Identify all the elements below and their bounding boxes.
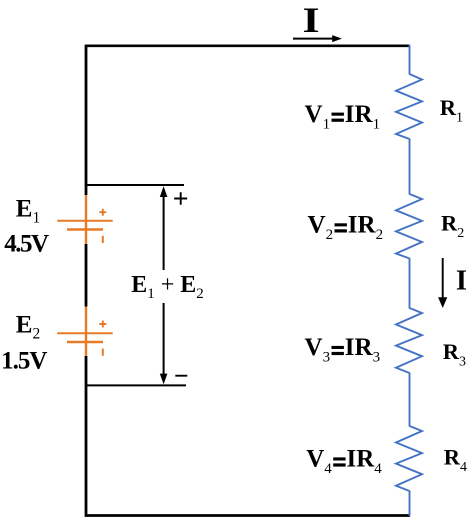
svg-text:I: I [303, 0, 320, 40]
current arrow mid (down) [438, 258, 447, 308]
svg-text:R4: R4 [444, 444, 467, 475]
svg-text:IR1: IR1 [345, 101, 380, 132]
wire left (segment below battery E2) [85, 356, 88, 517]
svg-text:4.5V: 4.5V [4, 231, 49, 258]
wire right between R3 and R4 [409, 373, 411, 427]
label plus (top of bracket) [174, 192, 187, 204]
wire bottom [86, 514, 410, 517]
svg-text:R3: R3 [443, 339, 466, 370]
svg-text:E1: E1 [16, 196, 40, 227]
svg-text:V3: V3 [305, 334, 331, 366]
wire right bottom segment (blue) [409, 491, 411, 516]
svg-text:1.5V: 1.5V [1, 347, 47, 374]
resistor R2 [396, 194, 422, 259]
svg-text:IR2: IR2 [348, 212, 383, 244]
svg-text:IR3: IR3 [345, 334, 380, 366]
svg-text:I: I [456, 266, 467, 297]
svg-text:IR4: IR4 [347, 446, 383, 478]
battery E2 [57, 307, 112, 357]
battery E1 [57, 195, 112, 244]
svg-text:E1 + E2: E1 + E2 [131, 272, 204, 302]
current arrow top [293, 35, 342, 42]
svg-text:E2: E2 [16, 312, 40, 343]
wire left (segment above battery E1) [85, 45, 88, 195]
label I (top current) [303, 0, 320, 40]
measurement arrow E1+E2 (double-headed) [160, 186, 168, 384]
svg-text:R1: R1 [440, 95, 463, 126]
svg-text:V1: V1 [305, 101, 331, 132]
svg-text:V4: V4 [306, 446, 332, 478]
resistor R1 [396, 74, 422, 139]
wire left (segment between batteries) [85, 244, 88, 307]
wire right top segment (blue) [409, 45, 411, 75]
wire right between R1 and R2 [409, 139, 411, 195]
resistor R4 [396, 426, 422, 491]
label minus (bottom of bracket) [175, 375, 187, 377]
wire top [86, 44, 409, 47]
bracket line bottom [86, 384, 186, 386]
svg-text:V2: V2 [308, 212, 334, 244]
wire right between R2 and R3 [409, 258, 411, 308]
svg-text:R2: R2 [441, 211, 464, 242]
bracket line top [86, 184, 184, 186]
resistor R3 [396, 308, 422, 373]
